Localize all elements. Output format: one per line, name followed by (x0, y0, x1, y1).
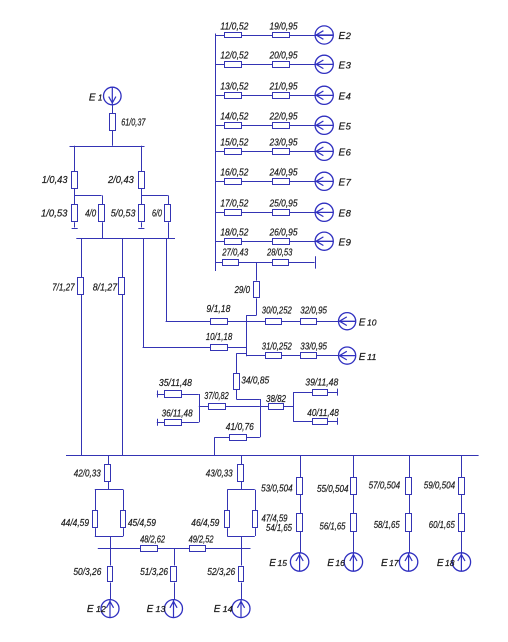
resistor 22 (22/0,95) (273, 123, 290, 129)
wire jog right pair (141, 195, 168, 197)
wire row 27-28 (215, 262, 314, 264)
wire box2 bottom (227, 536, 255, 538)
svg-text:37/0,82: 37/0,82 (204, 391, 229, 402)
resistor 8 (8/1,27) (119, 278, 125, 295)
resistor 42 (42/0,33) (105, 465, 111, 482)
svg-text:E3: E3 (339, 61, 352, 72)
wire stub below resistor 5 (141, 222, 143, 227)
resistor 60 (60/1,65) (459, 514, 465, 532)
source E16 (344, 553, 362, 571)
source E7 (315, 172, 333, 190)
svg-text:36/11,48: 36/11,48 (162, 409, 193, 420)
wire box2 right lower (255, 528, 257, 536)
source E11 (339, 347, 356, 364)
svg-text:E16: E16 (327, 558, 345, 569)
svg-text:E6: E6 (339, 148, 352, 159)
wire jog from central node to resistor 34 (236, 353, 246, 355)
wire column E15 to source (300, 532, 302, 553)
bus: right feeder vertical bus (215, 34, 217, 272)
wire column E17 middle (409, 495, 411, 514)
wire row 35 (157, 394, 199, 396)
wire column E17 upper (409, 456, 411, 477)
svg-text:38/82: 38/82 (266, 394, 286, 405)
wire row E4 (215, 95, 333, 97)
svg-text:16/0,52: 16/0,52 (220, 168, 248, 179)
wire branch E13 to source (174, 583, 176, 600)
resistor 31 (31/0,252) (266, 353, 282, 359)
svg-text:51/3,26: 51/3,26 (140, 567, 168, 578)
node: end bar row 35 (157, 391, 159, 398)
resistor 11 (11/0,52) (225, 33, 242, 38)
node: end bar row 40 (337, 418, 339, 425)
svg-text:57/0,504: 57/0,504 (369, 481, 401, 492)
svg-text:E15: E15 (269, 558, 287, 569)
wire below resistor 2 (141, 189, 143, 204)
wire column E16 upper (353, 456, 355, 477)
resistor 53 (53/0,504) (297, 478, 303, 495)
svg-text:17/0,52: 17/0,52 (220, 199, 248, 210)
wire column E16 to source (353, 532, 355, 553)
svg-text:59/0,504: 59/0,504 (424, 481, 456, 492)
wire box2 top (227, 489, 255, 491)
svg-text:50/3,26: 50/3,26 (73, 567, 101, 578)
wire column E18 upper (461, 456, 463, 477)
wire box1 left upper (95, 490, 97, 511)
wire box2 left upper (227, 490, 229, 511)
resistor 3 (3/0,53) (72, 205, 78, 222)
wire column E15 middle (300, 495, 302, 514)
wire resistor 42 to box1 (108, 482, 110, 490)
source E8 (315, 203, 333, 221)
wire feeder 8 lower (122, 295, 124, 456)
svg-text:E11: E11 (359, 352, 377, 363)
wire row 41 down to main bus (214, 437, 216, 456)
wire row 40 (293, 421, 337, 423)
svg-text:24/0,95: 24/0,95 (269, 168, 298, 179)
node: end bar row 39 (337, 389, 339, 396)
resistor 39 (39/11,48) (313, 390, 328, 396)
resistor 38 (38/82) (269, 404, 284, 410)
svg-text:18/0,52: 18/0,52 (220, 228, 248, 239)
resistor 13 (13/0,52) (225, 93, 242, 99)
resistor 32 (32/0,95) (301, 319, 317, 325)
resistor 18 (18/0,52) (225, 239, 242, 245)
wire feeder 7 lower (81, 295, 83, 456)
source E17 (399, 553, 417, 571)
svg-text:60/1,65: 60/1,65 (429, 520, 455, 531)
wire row 36 (157, 422, 199, 424)
resistor 59 (59/0,504) (459, 478, 465, 495)
wire box1 top (95, 489, 124, 491)
svg-text:45/4,59: 45/4,59 (128, 518, 156, 529)
svg-text:23/0,95: 23/0,95 (269, 138, 298, 149)
resistor 26 (26/0,95) (273, 239, 290, 245)
svg-text:8/1,27: 8/1,27 (93, 283, 118, 294)
wire box2 right upper (255, 490, 257, 511)
resistor 7 (7/1,27) (78, 278, 84, 295)
resistor 40 (40/11,48) (313, 419, 328, 425)
bus: main lower bus (66, 455, 479, 457)
svg-text:11/0,52: 11/0,52 (220, 21, 248, 32)
svg-text:56/1,65: 56/1,65 (320, 522, 346, 533)
source E1 (104, 87, 122, 105)
wire jog left pair (75, 195, 102, 197)
svg-text:54/1,65: 54/1,65 (266, 523, 292, 534)
svg-text:34/0,85: 34/0,85 (241, 376, 269, 387)
resistor 16 (16/0,52) (225, 179, 242, 185)
node: end bar right of resistor 28 (315, 256, 317, 268)
source E15 (290, 553, 308, 571)
wire column E18 middle (461, 495, 463, 514)
svg-text:61/0,37: 61/0,37 (121, 118, 146, 129)
source E12 (101, 600, 119, 618)
source E18 (452, 553, 470, 571)
source E3 (315, 55, 333, 73)
resistor 6 (6/0) (165, 205, 171, 222)
bus: central node vertical (246, 315, 248, 356)
wire rows 39-40 vertical (293, 392, 295, 421)
wire branch E14 upper (241, 548, 243, 565)
bus: lower node vertical (260, 399, 262, 437)
wire row 10 feeder drop (143, 239, 145, 348)
resistor 2 (2/0,43) (139, 172, 145, 189)
wire bus to resistor 43 (241, 456, 243, 465)
wire column E18 to source (461, 532, 463, 553)
svg-text:10/1,18: 10/1,18 (206, 332, 233, 343)
svg-text:55/0,504: 55/0,504 (317, 484, 349, 495)
svg-text:E9: E9 (339, 237, 352, 248)
svg-text:28/0,53: 28/0,53 (266, 247, 292, 258)
svg-text:53/0,504: 53/0,504 (261, 484, 293, 495)
wire row 10 (143, 347, 247, 349)
source E6 (315, 142, 333, 160)
svg-text:25/0,95: 25/0,95 (269, 199, 298, 210)
resistor 14 (14/0,52) (225, 123, 242, 129)
svg-text:E18: E18 (437, 558, 455, 569)
svg-text:41/0,76: 41/0,76 (226, 422, 254, 433)
svg-text:5/0,53: 5/0,53 (111, 209, 136, 220)
wire box1 right upper (123, 490, 125, 511)
svg-text:48/2,62: 48/2,62 (140, 535, 165, 546)
wire box1 bottom (95, 536, 124, 538)
svg-text:E5: E5 (339, 122, 352, 133)
wire lower distribution (98, 548, 251, 550)
svg-text:19/0,95: 19/0,95 (270, 21, 298, 32)
wire row E9 (215, 241, 333, 243)
resistor 34 (34/0,85) (234, 374, 240, 390)
svg-text:30/0,252: 30/0,252 (262, 305, 292, 316)
wire resistor 6 to bus 2 (168, 222, 170, 238)
resistor 43 (43/0,33) (238, 465, 244, 482)
svg-text:22/0,95: 22/0,95 (269, 112, 298, 123)
resistor 45 (45/4,59) (121, 511, 126, 528)
node: end bar below resistor 3 (72, 228, 78, 230)
resistor 1 (1/0,43) (72, 172, 78, 189)
svg-text:E4: E4 (339, 92, 351, 103)
svg-text:E17: E17 (381, 558, 399, 569)
wire box1 left lower (95, 528, 97, 536)
svg-text:1/0,53: 1/0,53 (41, 209, 68, 220)
wire row E5 (215, 125, 333, 127)
resistor 56 (56/1,65) (351, 514, 357, 532)
svg-text:43/0,33: 43/0,33 (206, 469, 233, 480)
wire box1 to lower wire (110, 536, 112, 548)
source E10 (339, 313, 356, 330)
svg-text:32/0,95: 32/0,95 (300, 305, 327, 316)
wire bus1 right drop (141, 146, 143, 172)
resistor 28 (28/0,53) (273, 260, 289, 266)
wire to resistor 6 (168, 195, 170, 204)
wire row 39 (293, 392, 337, 394)
resistor 4 (4/0) (99, 205, 105, 222)
wire E1 to resistor 61 (112, 105, 114, 113)
resistor 37 (37/0,82) (209, 404, 226, 410)
resistor 44 (44/4,59) (93, 511, 98, 528)
resistor 5 (5/0,53) (139, 205, 145, 222)
wire resistor 34 bottom (236, 390, 238, 399)
svg-text:26/0,95: 26/0,95 (269, 228, 298, 239)
wire box1 right lower (123, 528, 125, 536)
svg-text:31/0,252: 31/0,252 (262, 342, 292, 353)
svg-text:21/0,95: 21/0,95 (269, 82, 298, 93)
svg-text:20/0,95: 20/0,95 (269, 51, 298, 62)
svg-text:E8: E8 (339, 209, 352, 220)
svg-text:1/0,43: 1/0,43 (42, 175, 68, 186)
resistor 9 (9/1,18) (211, 319, 228, 325)
resistor 61 (61/0,37) (110, 114, 116, 131)
svg-text:29/0: 29/0 (234, 285, 250, 296)
resistor 54 (54/1,65) (297, 514, 303, 532)
wire row 37 (199, 406, 260, 408)
resistor 21 (21/0,95) (273, 93, 290, 99)
resistor 49 (49/2,52) (190, 546, 206, 552)
wire box2 left lower (227, 528, 229, 536)
wire row E7 (215, 181, 333, 183)
svg-text:35/11,48: 35/11,48 (159, 378, 192, 389)
resistor 57 (57/0,504) (406, 478, 412, 495)
svg-text:46/4,59: 46/4,59 (191, 518, 219, 529)
node: end bar below resistor 5 (138, 228, 144, 230)
wire resistor 43 to box2 (241, 482, 243, 490)
bus: second distribution bus (76, 238, 175, 240)
svg-text:7/1,27: 7/1,27 (52, 283, 75, 294)
wire row E6 (215, 151, 333, 153)
wire bus to resistor 42 (108, 456, 110, 465)
wire resistor 4 to bus 2 (102, 222, 104, 238)
wire branch E12 upper (110, 548, 112, 565)
wire resistor 29 to central node (256, 298, 258, 315)
svg-text:49/2,52: 49/2,52 (189, 535, 214, 546)
wire row 9 feeder drop (166, 239, 168, 322)
resistor 10 (10/1,18) (211, 345, 228, 351)
wire row 38 (260, 406, 293, 408)
svg-text:27/0,43: 27/0,43 (221, 247, 248, 258)
svg-text:E12: E12 (87, 604, 107, 615)
svg-text:E10: E10 (359, 317, 377, 328)
resistor 58 (58/1,65) (406, 514, 412, 532)
resistor 30 (30/0,252) (266, 319, 282, 325)
wire resistor 61 to bus 1 (112, 131, 114, 146)
resistor 12 (12/0,52) (225, 62, 242, 68)
svg-text:E13: E13 (147, 604, 167, 615)
svg-text:40/11,48: 40/11,48 (307, 408, 339, 419)
wire row 41 (215, 437, 260, 439)
source E5 (315, 116, 333, 134)
wire row E2 (215, 35, 333, 37)
wire jog to lower node (236, 399, 260, 401)
svg-text:6/0: 6/0 (152, 209, 162, 220)
resistor 35 (35/11,48) (165, 391, 182, 398)
wire to resistor 4 (102, 195, 104, 204)
resistor 52 (52/3,26) (239, 567, 244, 582)
resistor 55 (55/0,504) (351, 478, 357, 495)
wire row E3 (215, 64, 333, 66)
source E2 (315, 26, 333, 44)
resistor 17 (17/0,52) (225, 210, 242, 216)
wire feeder 8 upper (122, 239, 124, 278)
resistor 36 (36/11,48) (165, 420, 182, 426)
wire branch E12 to source (110, 583, 112, 600)
source E9 (315, 232, 333, 250)
wire column E15 upper (300, 456, 302, 477)
wire bus1 left drop (74, 146, 76, 172)
svg-text:4/0: 4/0 (85, 209, 96, 220)
resistor 47 (47/4,59) (253, 511, 258, 528)
svg-text:14/0,52: 14/0,52 (220, 112, 248, 123)
wire stub below resistor 3 (74, 222, 76, 227)
resistor 33 (33/0,95) (301, 353, 317, 359)
wire box2 to lower wire (241, 536, 243, 548)
resistor 48 (48/2,62) (141, 546, 158, 552)
wire row 9 (166, 321, 247, 323)
wire row E10 (246, 321, 355, 323)
wire row E11 (246, 355, 355, 357)
resistor 15 (15/0,52) (225, 149, 242, 155)
svg-text:2/0,43: 2/0,43 (107, 175, 134, 186)
svg-text:15/0,52: 15/0,52 (220, 138, 248, 149)
resistor 24 (24/0,95) (273, 179, 290, 185)
svg-text:42/0,33: 42/0,33 (74, 469, 101, 480)
resistor 29 (29/0) (254, 282, 260, 298)
wire central node to resistor 34 top (236, 353, 238, 373)
resistor 25 (25/0,95) (273, 210, 290, 216)
resistor 27 (27/0,43) (223, 260, 239, 266)
resistor 51 (51/3,26) (171, 567, 177, 582)
bus: E1 distribution bus (70, 146, 145, 148)
wire below resistor 1 (74, 189, 76, 204)
resistor 41 (41/0,76) (230, 435, 247, 441)
svg-text:13/0,52: 13/0,52 (220, 82, 248, 93)
source E14 (232, 600, 250, 618)
svg-text:12/0,52: 12/0,52 (220, 51, 248, 62)
svg-text:39/11,48: 39/11,48 (305, 378, 338, 389)
node: end bar row 36 (157, 419, 159, 426)
svg-text:E7: E7 (339, 178, 352, 189)
wire 27-28 junction down to resistor 29 (256, 263, 258, 281)
svg-text:44/4,59: 44/4,59 (61, 518, 89, 529)
wire rows 35-36 vertical (199, 394, 201, 422)
svg-text:E2: E2 (339, 31, 352, 42)
svg-text:E14: E14 (214, 604, 234, 615)
wire jog at node top (246, 315, 256, 317)
wire feeder 7 upper (81, 239, 83, 278)
source E4 (315, 86, 333, 104)
wire column E17 to source (409, 532, 411, 553)
wire branch E14 to source (241, 583, 243, 600)
svg-text:33/0,95: 33/0,95 (300, 342, 327, 353)
wire column E16 middle (353, 495, 355, 514)
resistor 19 (19/0,95) (273, 33, 290, 38)
wire branch E13 upper (174, 548, 176, 565)
wire row E8 (215, 212, 333, 214)
svg-text:52/3,26: 52/3,26 (207, 567, 235, 578)
resistor 20 (20/0,95) (273, 62, 290, 68)
source E13 (165, 600, 183, 618)
resistor 50 (50/3,26) (108, 567, 113, 582)
svg-text:9/1,18: 9/1,18 (206, 304, 230, 315)
resistor 46 (46/4,59) (225, 511, 230, 528)
resistor 23 (23/0,95) (273, 149, 290, 155)
svg-text:58/1,65: 58/1,65 (374, 520, 400, 531)
